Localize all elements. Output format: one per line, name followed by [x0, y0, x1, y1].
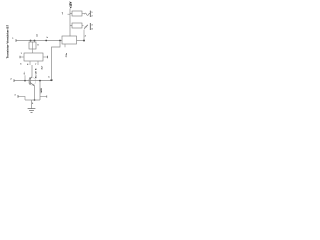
- wire: U2 bottom stub: [64, 44, 66, 47]
- wire: base net B horizontal: [14, 80, 52, 82]
- wire: emitter down: [34, 86, 36, 100]
- wire: U2 right to node: [77, 40, 85, 42]
- terminal pin left of net B: [13, 79, 15, 82]
- wire: stub right from R3 bottom: [40, 96, 47, 98]
- resistor R3 vertical (base-emitter): [39, 81, 41, 100]
- inductor/coil LS1: [84, 13, 90, 15]
- resistor R2: [72, 23, 82, 28]
- wire: node up to B1: [83, 30, 85, 41]
- wire: U1 right pin: [43, 56, 48, 58]
- wire: R1 to LS1: [82, 13, 84, 15]
- svg-text:Transistor-Verstärker B7: Transistor-Verstärker B7: [6, 25, 10, 59]
- wire: main horizontal net A: [16, 40, 62, 42]
- node junction right: [83, 40, 85, 42]
- junction on net A at X1 left pin: [30, 40, 32, 42]
- wire: collector line down to Q1: [31, 65, 33, 77]
- wire: step up from node b to U2: [52, 41, 61, 81]
- wire: U1 bottom pins: [30, 61, 38, 65]
- junction R3 to net B: [39, 80, 41, 82]
- svg-text:+12V: +12V: [68, 2, 72, 9]
- transistor Q1: [28, 78, 36, 86]
- wire: branch to R2: [70, 25, 72, 27]
- wire: branch to R1: [70, 13, 72, 15]
- svg-text:1k5B: 1k5B: [41, 88, 43, 94]
- node junction b right: [50, 79, 52, 81]
- stub with junction on net B: [24, 80, 26, 82]
- junction on net A at step to node b: [59, 40, 61, 42]
- IC U1 (wide box): [24, 53, 43, 61]
- terminal pin left of net A: [15, 39, 17, 42]
- wire: stub with label 7 on rail: [68, 13, 71, 15]
- svg-text:BC 547 B: BC 547 B: [35, 68, 38, 78]
- wire: left drop to net C: [18, 96, 25, 100]
- buzzer/arrow element B1: [84, 25, 88, 29]
- IC U2 (middle box): [62, 36, 77, 44]
- wire: R2 to buzzer: [82, 25, 84, 27]
- wire: VCC rail vertical: [69, 9, 71, 37]
- connector J1: [89, 11, 91, 17]
- crystal X1 (small box under net A): [31, 41, 35, 43]
- resistor R1: [72, 11, 82, 16]
- junction on net A at node b column: [45, 40, 47, 42]
- terminal pin at stub end: [46, 95, 48, 97]
- wire: U1 left pin: [20, 56, 24, 58]
- terminal pin left bottom: [17, 95, 19, 98]
- junction on net A at X1 right pin: [34, 40, 36, 42]
- connector J2: [89, 23, 91, 30]
- junction emitter to net C: [34, 99, 36, 101]
- ground: [31, 100, 33, 109]
- wire: X1 to U1: [32, 49, 34, 53]
- wire: bottom net C horizontal: [25, 99, 40, 101]
